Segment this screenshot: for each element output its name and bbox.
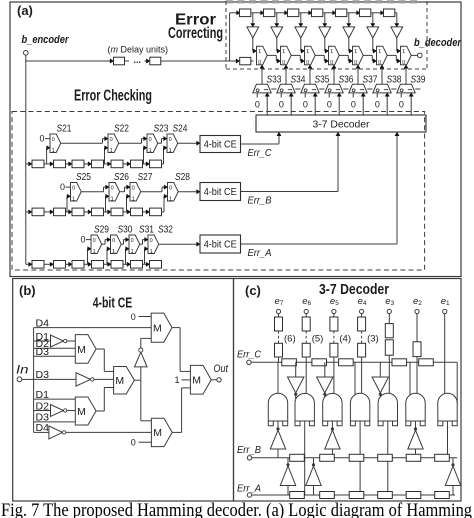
wire M5 out to M6	[172, 431, 181, 433]
select line from S38 mux	[381, 69, 383, 85]
svg-text:Err_B: Err_B	[248, 195, 272, 207]
inverter between M2 and M4	[140, 367, 142, 380]
svg-text:S25: S25	[76, 171, 91, 183]
svg-text:1: 1	[258, 49, 261, 55]
wire tap to inverter	[324, 13, 326, 24]
select line from S39 mux	[405, 69, 407, 85]
delay register column e7 (upper)	[275, 317, 283, 331]
wire mux to 4-bit CE	[159, 243, 197, 245]
wire M4 out to M6	[172, 327, 180, 329]
delay register column e3 (upper)	[385, 324, 393, 338]
wire tap to inverter	[300, 13, 302, 24]
wire from previous mux output	[140, 243, 143, 245]
wire from previous mux output	[363, 54, 372, 56]
wire	[416, 314, 418, 342]
panel (b) frame	[13, 279, 234, 502]
correction mux (selects via S39)	[401, 46, 412, 64]
wire main input line	[26, 60, 111, 62]
tap wire from shift chain	[66, 196, 68, 212]
tap wire from shift chain	[163, 196, 165, 212]
svg-text:0: 0	[111, 186, 114, 192]
shift register chain row Err_A	[29, 262, 32, 266]
gate bottom tabs	[323, 421, 328, 426]
dashed delay continuation	[361, 331, 363, 343]
delay unit register m1	[114, 57, 125, 65]
svg-text:0: 0	[150, 238, 153, 244]
wire mux to 4-bit CE	[178, 142, 197, 144]
mux S30	[111, 235, 122, 254]
wire from previous mux output	[81, 191, 103, 193]
svg-text:In: In	[16, 362, 29, 376]
AND gate 5 (3-7 decoder)	[378, 393, 397, 421]
inverter (triangle down)	[379, 362, 381, 377]
registers on Err_B wire	[290, 454, 305, 461]
svg-text:0: 0	[52, 137, 55, 143]
svg-text:0: 0	[60, 182, 65, 192]
error signal e6 line from decoder	[290, 96, 292, 115]
inverter on D3 (middle)	[76, 373, 91, 386]
tap wire from shift chain	[144, 249, 146, 264]
delay register D4 (top row, error correcting)	[312, 9, 323, 17]
mux S35	[301, 84, 319, 93]
dashed delay continuation	[305, 331, 307, 343]
svg-text:0: 0	[169, 186, 172, 192]
svg-text:0: 0	[378, 60, 381, 66]
svg-text:...: ...	[134, 55, 142, 65]
inverter (triangle) for bit 1	[391, 27, 403, 38]
b_decoder terminal	[418, 53, 423, 58]
registers on Err_A wire	[290, 492, 305, 499]
select line from S34 mux	[285, 69, 287, 85]
wire	[347, 12, 357, 14]
svg-text:0: 0	[81, 235, 86, 245]
inverter (triangle) for bit 5	[295, 27, 307, 38]
svg-text:0: 0	[282, 60, 285, 66]
Err_C distribution wire	[251, 361, 457, 363]
tap wire from shift chain	[105, 196, 107, 212]
svg-text:0: 0	[399, 100, 404, 110]
b_encoder terminal	[24, 51, 29, 56]
correction mux (selects via S37)	[353, 46, 364, 64]
mux S21	[50, 134, 61, 153]
svg-text:0: 0	[131, 438, 136, 448]
select line from S33 mux	[261, 69, 263, 85]
svg-text:M: M	[192, 375, 201, 387]
wire M2 out to M5 select	[141, 420, 152, 422]
wire	[361, 314, 363, 317]
svg-text:S38: S38	[387, 74, 402, 86]
delay register column e6 (lower)	[302, 343, 310, 357]
svg-text:(a): (a)	[17, 3, 33, 18]
svg-text:b_decoder: b_decoder	[414, 37, 462, 49]
svg-text:M: M	[115, 375, 124, 387]
svg-text:0: 0	[110, 137, 113, 143]
mux S26	[109, 183, 120, 202]
svg-text:S33: S33	[267, 74, 282, 86]
delay register column e4 (upper)	[358, 317, 366, 331]
svg-text:0: 0	[255, 100, 260, 110]
delay register column e4 (lower)	[358, 343, 366, 357]
wire	[395, 12, 397, 14]
AND gate 1 (3-7 decoder)	[268, 393, 287, 421]
Err_B distribution wire	[252, 457, 458, 459]
shift register chain row Err_B	[29, 210, 32, 214]
panel (c) frame	[234, 279, 462, 502]
svg-text:0: 0	[72, 186, 75, 192]
svg-text:M: M	[77, 344, 86, 356]
svg-text:1: 1	[175, 375, 180, 385]
svg-text:1: 1	[354, 49, 357, 55]
wire inverter to mux 1-input	[252, 38, 254, 51]
wire	[305, 357, 307, 362]
svg-text:M: M	[77, 406, 86, 418]
svg-text:0: 0	[131, 238, 134, 244]
delay register D3 (top row, error correcting)	[288, 9, 299, 17]
wire from previous mux output	[121, 243, 123, 245]
4-bit CE block row Err_C	[200, 136, 241, 153]
mux S34	[277, 84, 295, 93]
wire	[299, 12, 309, 14]
svg-text:1: 1	[169, 148, 172, 154]
svg-text:0: 0	[330, 60, 333, 66]
Error Checking dashed box	[12, 112, 425, 271]
svg-text:(3): (3)	[367, 334, 379, 345]
input bus vertical	[33, 328, 35, 433]
inverter (triangle) for bit 2	[367, 27, 379, 38]
svg-text:1: 1	[330, 49, 333, 55]
wire tap to inverter	[252, 13, 254, 24]
svg-text:(m Delay units): (m Delay units)	[108, 45, 169, 55]
svg-text:1: 1	[169, 197, 172, 203]
svg-text:1: 1	[93, 249, 96, 255]
wire drop at right end	[456, 362, 458, 404]
wire inverter to mux 1-input	[324, 38, 326, 51]
delay register column e5 (upper)	[330, 317, 338, 331]
svg-text:0: 0	[40, 134, 45, 144]
select stub S37	[367, 88, 372, 90]
svg-text:S36: S36	[339, 74, 354, 86]
mux M1 (top-left)	[75, 335, 96, 364]
3-7 Decoder block	[256, 115, 426, 132]
wire	[388, 314, 390, 324]
svg-text:0: 0	[327, 100, 332, 110]
delay register D6 (top row, error correcting)	[360, 9, 371, 17]
svg-text:4-bit CE: 4-bit CE	[93, 295, 133, 311]
svg-text:0: 0	[169, 137, 172, 143]
error signal e1 line from decoder	[410, 96, 412, 115]
wire from previous mux output	[267, 54, 276, 56]
svg-text:4-bit CE: 4-bit CE	[204, 240, 237, 251]
svg-text:0: 0	[354, 60, 357, 66]
svg-text:(4): (4)	[339, 334, 351, 345]
Err_A wire	[241, 243, 398, 245]
svg-text:S35: S35	[315, 74, 330, 86]
svg-text:(c): (c)	[245, 283, 261, 298]
Error Correcting dashed box	[226, 0, 420, 3]
wire to error correcting block	[161, 60, 237, 62]
wire	[371, 12, 381, 14]
wire M2 out	[134, 379, 140, 381]
mux S38	[373, 84, 391, 93]
tap wire from shift chain	[125, 249, 127, 264]
svg-text:0: 0	[375, 100, 380, 110]
4-bit CE block row Err_B	[200, 183, 241, 201]
wire from previous mux output	[158, 142, 162, 144]
Err_C wire riser to decoder	[278, 135, 280, 143]
gate bottom tabs	[268, 421, 273, 426]
svg-text:1: 1	[378, 49, 381, 55]
select stub S36	[343, 88, 348, 90]
svg-text:0: 0	[131, 312, 136, 322]
svg-text:Correcting: Correcting	[168, 25, 223, 42]
4-bit CE block row Err_A	[200, 235, 241, 253]
svg-text:4-bit CE: 4-bit CE	[204, 187, 237, 198]
svg-text:S34: S34	[291, 74, 306, 86]
AND gate 3 (3-7 decoder)	[323, 393, 342, 421]
svg-text:S39: S39	[411, 74, 426, 86]
mux M5 (bottom-right)	[151, 418, 172, 446]
correction mux (selects via S33)	[257, 46, 268, 64]
mux S29	[91, 235, 102, 254]
tap wire from shift chain	[143, 148, 145, 164]
svg-text:0: 0	[306, 60, 309, 66]
AND outputs down through Err_B row	[304, 421, 306, 495]
wire	[278, 357, 280, 362]
wire	[251, 12, 261, 14]
mux S25	[71, 183, 82, 202]
wire	[305, 314, 307, 317]
svg-text:3-7 Decoder: 3-7 Decoder	[313, 120, 371, 131]
mux M3 (bottom-left)	[75, 397, 96, 425]
svg-text:1: 1	[111, 197, 114, 203]
inverter on D4 (bottom)	[49, 426, 63, 439]
Err_C wire	[241, 143, 280, 145]
correction mux (selects via S35)	[305, 46, 316, 64]
svg-text:S32: S32	[158, 224, 173, 236]
svg-text:S30: S30	[118, 224, 133, 236]
svg-text:1: 1	[149, 148, 152, 154]
mux M2 (middle)	[114, 367, 135, 395]
svg-text:S31: S31	[139, 224, 154, 236]
svg-text:Err_A: Err_A	[248, 247, 272, 259]
wire to b_decoder terminal	[411, 54, 417, 56]
svg-text:(5): (5)	[312, 334, 324, 345]
gate bottom tabs	[350, 421, 355, 426]
wire inverter to mux 1-input	[300, 38, 302, 51]
wire from previous mux output	[315, 54, 324, 56]
gate bottom tabs	[438, 421, 443, 426]
svg-text:4-bit CE: 4-bit CE	[204, 140, 237, 151]
error signal e7 line from decoder	[266, 96, 268, 115]
delay register column e5 (lower)	[330, 343, 338, 357]
svg-text:1: 1	[282, 49, 285, 55]
svg-text:(6): (6)	[284, 334, 296, 345]
delay register D1 (top row, error correcting)	[240, 9, 251, 17]
select stub S39	[415, 88, 420, 90]
mux S27	[130, 183, 141, 202]
mux S22	[108, 134, 119, 153]
svg-text:1: 1	[150, 249, 153, 255]
svg-text:1: 1	[112, 249, 115, 255]
delay register column e2	[413, 342, 421, 357]
select line from S36 mux	[333, 69, 335, 85]
wire riser to top shift register row	[229, 13, 231, 61]
inverters between AND row and Err_B (with output dots)	[277, 421, 279, 428]
svg-text:0: 0	[279, 100, 284, 110]
svg-text:Err_C: Err_C	[248, 147, 272, 159]
inverter (triangle down)	[324, 362, 326, 377]
wire inverter to mux 1-input	[348, 38, 350, 51]
wire In to bus	[22, 378, 34, 380]
AND gate 4 (3-7 decoder)	[350, 393, 369, 421]
svg-text:1: 1	[132, 197, 135, 203]
svg-text:S27: S27	[138, 171, 153, 183]
mux S36	[325, 84, 343, 93]
delay register column e3 (lower)	[385, 340, 393, 355]
wire from input bus	[26, 163, 29, 165]
select stub S33	[271, 88, 276, 90]
inverter (triangle down)	[295, 362, 297, 377]
svg-text:0: 0	[93, 238, 96, 244]
wire from previous mux output	[120, 191, 125, 193]
svg-text:S26: S26	[114, 171, 129, 183]
svg-text:0: 0	[258, 60, 261, 66]
delay register column e6 (upper)	[302, 317, 310, 331]
tap wire from shift chain	[106, 249, 108, 264]
tap wire from shift chain	[46, 148, 48, 164]
select stub S35	[319, 88, 324, 90]
delay register D5 (top row, error correcting)	[336, 9, 347, 17]
wire from previous mux output	[141, 191, 162, 193]
Err_A wire riser to decoder	[396, 135, 398, 243]
svg-text:Fig. 7 The proposed Hamming de: Fig. 7 The proposed Hamming decoder. (a)…	[1, 500, 472, 518]
dashed delay continuation	[278, 331, 280, 343]
dashed delay continuation	[333, 331, 335, 343]
AND gate 6 (3-7 decoder)	[406, 393, 425, 421]
mux S31	[129, 235, 140, 254]
wire	[444, 314, 446, 363]
svg-text:1: 1	[52, 148, 55, 154]
svg-text:0: 0	[351, 100, 356, 110]
wire	[416, 357, 418, 363]
select line from S35 mux	[309, 69, 311, 85]
wire from previous mux output	[339, 54, 348, 56]
mux S23	[147, 134, 158, 153]
wire	[275, 12, 285, 14]
svg-text:S22: S22	[114, 123, 129, 135]
svg-text:S24: S24	[173, 123, 188, 135]
inverter (triangle) for bit 6	[271, 27, 283, 38]
svg-text:0: 0	[112, 238, 115, 244]
Out terminal	[217, 378, 221, 382]
error signal e2 line from decoder	[386, 96, 388, 115]
Err_B wire	[241, 191, 339, 193]
wire mux to 4-bit CE	[178, 191, 197, 193]
svg-text:S21: S21	[57, 123, 72, 135]
Err_A distribution wire	[252, 494, 455, 496]
wire inverter to mux 1-input	[396, 38, 398, 51]
tap wire from shift chain	[163, 148, 165, 164]
gate bottom tabs	[295, 421, 300, 426]
wire inverter to mux 1-input	[276, 38, 278, 51]
svg-text:b_encoder: b_encoder	[22, 34, 70, 46]
column drops into AND gates	[277, 362, 279, 397]
inverter (triangle) for bit 7	[247, 27, 259, 38]
svg-text:M: M	[153, 322, 162, 334]
wire	[388, 355, 390, 362]
error signal e4 line from decoder	[338, 96, 340, 115]
correction mux (selects via S34)	[281, 46, 292, 64]
wire	[323, 12, 333, 14]
select line from S37 mux	[357, 69, 359, 85]
mux S28	[168, 183, 179, 202]
svg-text:0: 0	[402, 60, 405, 66]
wire tap to inverter	[276, 13, 278, 24]
delay unit register m2	[150, 57, 161, 65]
svg-text:S28: S28	[175, 171, 190, 183]
svg-text:1: 1	[306, 49, 309, 55]
mux S37	[349, 84, 367, 93]
inverter (triangle) for bit 3	[343, 27, 355, 38]
svg-text:S23: S23	[154, 123, 169, 135]
AND gate 7 (3-7 decoder)	[438, 393, 457, 421]
delay register D7 (top row, error correcting)	[384, 9, 395, 17]
svg-text:0: 0	[132, 186, 135, 192]
svg-text:S29: S29	[94, 224, 109, 236]
svg-text:S37: S37	[363, 74, 378, 86]
wire from input bus	[26, 211, 29, 213]
svg-text:(b): (b)	[19, 283, 36, 298]
wire tap to inverter	[348, 13, 350, 24]
delay register D2 (top row, error correcting)	[264, 9, 275, 17]
svg-text:Out: Out	[214, 363, 229, 375]
svg-text:1: 1	[72, 197, 75, 203]
error correcting input register	[236, 59, 239, 63]
registers on Err_C wire	[282, 359, 297, 366]
mux S39	[397, 84, 415, 93]
inverters between Err_B and Err_A (with dots)	[287, 458, 289, 464]
wire tap to inverter	[396, 13, 398, 24]
svg-text:Err_B: Err_B	[237, 444, 261, 456]
svg-text:1: 1	[402, 49, 405, 55]
gate bottom tabs	[406, 421, 411, 426]
svg-text:M: M	[153, 427, 162, 439]
gate bottom tabs	[378, 421, 383, 426]
wire	[361, 357, 363, 362]
inverter (triangle) for bit 4	[319, 27, 331, 38]
wire tap to inverter	[372, 13, 374, 24]
wire from previous mux output	[387, 54, 396, 56]
mux M6 (output)	[190, 365, 211, 394]
svg-text:Error Checking: Error Checking	[74, 87, 152, 104]
wire from previous mux output	[102, 243, 105, 245]
Err_B wire riser to decoder	[337, 135, 339, 191]
wire from previous mux output	[291, 54, 300, 56]
inverter on D2	[51, 405, 64, 417]
AND gate 2 (3-7 decoder)	[295, 393, 314, 421]
error signal e3 line from decoder	[362, 96, 364, 115]
error signal e5 line from decoder	[314, 96, 316, 115]
inverter on D1	[51, 335, 64, 347]
tap wire from shift chain	[87, 249, 89, 264]
svg-text:Err_C: Err_C	[237, 349, 261, 361]
panel (a) outer frame	[10, 2, 461, 277]
delay register column e7 (lower)	[275, 343, 283, 357]
wire from input bus	[26, 263, 29, 265]
wire between delay units	[125, 60, 130, 62]
shift register chain row Err_C	[29, 162, 32, 166]
svg-text:0: 0	[303, 100, 308, 110]
